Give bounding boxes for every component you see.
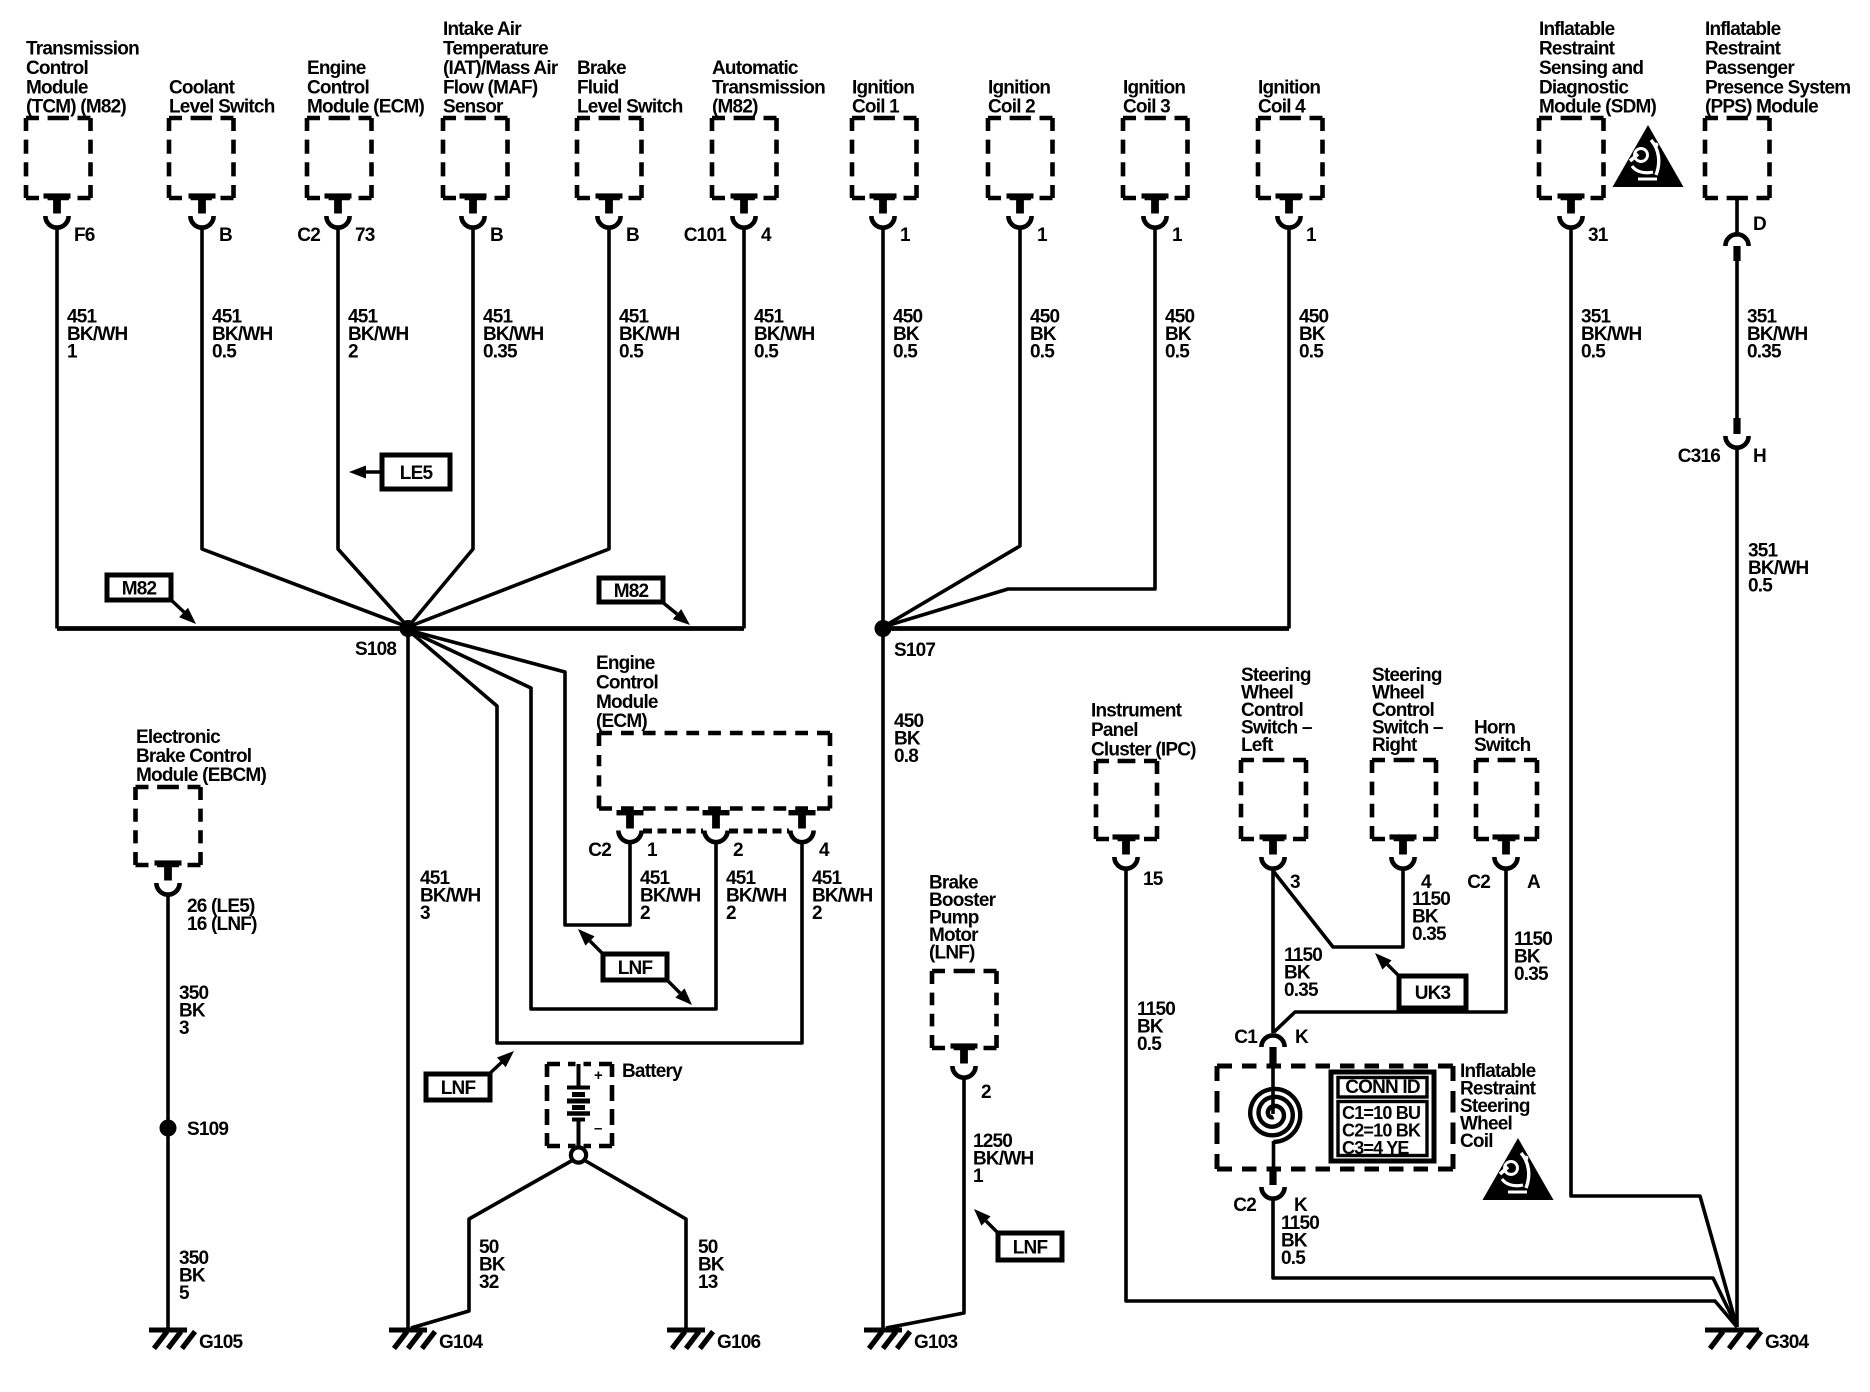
wire ignition coil 1 to S107 and down to G103 [881, 228, 885, 1329]
connector C2 pin K below coil [1233, 1169, 1308, 1216]
svg-text:C2: C2 [1233, 1195, 1256, 1216]
svg-text:1: 1 [647, 840, 658, 861]
component box battery [547, 1061, 683, 1147]
svg-text:0.35: 0.35 [1412, 924, 1447, 945]
svg-text:K: K [1295, 1027, 1309, 1048]
wire label 450 BK 0.5 at x883 [893, 307, 923, 363]
wire label 1150 BK 0.5 coil [1281, 1213, 1319, 1269]
wire label 450 BK 0.5 at x1020 [1030, 307, 1060, 363]
svg-text:LNF: LNF [1013, 1238, 1048, 1259]
ground G105 [149, 1328, 244, 1354]
svg-text:G106: G106 [717, 1332, 761, 1353]
wire IPC to G304 [1126, 869, 1737, 1327]
wire S108 horizontal bus [57, 626, 744, 631]
connector D cap and pin [1725, 214, 1766, 261]
component box ignition coil 3 [1123, 77, 1188, 246]
svg-text:G104: G104 [439, 1332, 484, 1353]
svg-text:(M82): (M82) [712, 97, 758, 118]
component box brake booster pump motor [929, 873, 997, 1104]
wire ECM pin73 to S108 [338, 228, 408, 627]
component box ignition coil 1 [852, 77, 917, 246]
svg-text:C2: C2 [297, 225, 320, 246]
component box brake fluid level switch [577, 58, 683, 246]
component box ECM lower [596, 653, 830, 809]
svg-text:Flow (MAF): Flow (MAF) [443, 77, 538, 98]
wire label 351 BK/WH 0.35 at x1737 [1747, 307, 1807, 363]
wire label 451 BK/WH 0.5 at x609 [619, 307, 679, 363]
svg-text:LE5: LE5 [400, 463, 434, 484]
svg-text:2: 2 [733, 840, 743, 861]
wire coil C2 to G304 [1273, 1198, 1737, 1327]
svg-text:31: 31 [1588, 225, 1609, 246]
svg-text:73: 73 [355, 225, 375, 246]
wire TCM F6 to S108 bus [55, 228, 59, 629]
wire D to C316 [1735, 259, 1739, 418]
svg-text:0.5: 0.5 [619, 342, 644, 363]
svg-text:M82: M82 [122, 579, 157, 600]
svg-text:Battery: Battery [622, 1061, 683, 1082]
svg-text:(IAT)/Mass Air: (IAT)/Mass Air [443, 58, 559, 79]
wire label 451 BK/WH 0.35 at x473 [483, 307, 543, 363]
svg-text:Passenger: Passenger [1705, 58, 1795, 79]
component box ECM [297, 58, 424, 246]
svg-text:0.35: 0.35 [1514, 964, 1549, 985]
svg-text:Presence System: Presence System [1705, 77, 1850, 98]
wire C316 to G304 [1735, 447, 1739, 1327]
flag LNF near ECM with two arrows [578, 929, 692, 1005]
wire S108 down to G104 [406, 629, 410, 1330]
svg-text:0.8: 0.8 [894, 746, 918, 767]
svg-text:0.35: 0.35 [483, 342, 518, 363]
component box instrument panel cluster [1091, 701, 1196, 891]
svg-text:3: 3 [1290, 872, 1300, 893]
svg-text:0.5: 0.5 [212, 342, 237, 363]
splice S108 [400, 620, 417, 637]
wire label 450 BK 0.5 at x1155 [1165, 307, 1195, 363]
svg-text:Module: Module [26, 77, 88, 98]
svg-text:3: 3 [179, 1018, 189, 1039]
svg-text:0.5: 0.5 [754, 342, 779, 363]
svg-text:Coil 1: Coil 1 [852, 97, 900, 118]
wire label 351 BK/WH 0.5 at x1571 [1581, 307, 1641, 363]
svg-text:13: 13 [698, 1272, 718, 1293]
component box ignition coil 2 [988, 77, 1053, 246]
flag M82 left with arrow [107, 575, 196, 624]
wire ignition coil 3 to S107 [883, 228, 1155, 627]
svg-text:5: 5 [179, 1283, 190, 1304]
svg-text:0.5: 0.5 [1581, 342, 1606, 363]
svg-text:B: B [626, 225, 639, 246]
svg-text:H: H [1753, 446, 1766, 467]
wire EBCM to G105 [166, 895, 170, 1329]
svg-text:4: 4 [819, 840, 830, 861]
svg-text:Transmission: Transmission [712, 77, 825, 98]
svg-text:Module (SDM): Module (SDM) [1539, 97, 1657, 118]
svg-text:Restraint: Restraint [1705, 39, 1782, 60]
wire label 1150 BK 0.5 IPC [1137, 999, 1175, 1055]
svg-text:0.35: 0.35 [1747, 342, 1782, 363]
svg-text:Ignition: Ignition [852, 77, 914, 98]
component box PPS module [1705, 19, 1850, 198]
svg-text:LNF: LNF [441, 1078, 476, 1099]
svg-text:Sensor: Sensor [443, 97, 504, 118]
svg-text:0.5: 0.5 [1299, 342, 1324, 363]
svg-text:Coil 2: Coil 2 [988, 97, 1035, 118]
svg-text:G105: G105 [199, 1332, 244, 1353]
wire IAT/MAF to S108 [408, 228, 473, 627]
flag LE5 with arrow [349, 455, 450, 489]
svg-text:Engine: Engine [307, 58, 366, 79]
wire brake fluid level switch to S108 [408, 228, 609, 627]
svg-text:3: 3 [420, 903, 430, 924]
svg-text:Control: Control [307, 77, 369, 98]
wire right switch to left switch pin [1274, 869, 1403, 947]
component box TCM M82 [26, 39, 139, 247]
wire coolant level switch to S108 [202, 228, 408, 627]
splice S109 [160, 1120, 177, 1137]
svg-text:B: B [219, 225, 232, 246]
svg-text:Coil 4: Coil 4 [1258, 97, 1306, 118]
svg-text:B: B [490, 225, 503, 246]
wire label 50 BK 13 [698, 1237, 725, 1293]
svg-text:C1: C1 [1234, 1027, 1258, 1048]
svg-text:Module: Module [596, 692, 658, 713]
splice S107 [875, 620, 892, 637]
ground G103 [864, 1328, 958, 1354]
svg-text:1: 1 [67, 342, 78, 363]
warning triangle steering coil [1483, 1138, 1554, 1200]
svg-text:Fluid: Fluid [577, 77, 619, 98]
svg-text:(PPS) Module: (PPS) Module [1705, 97, 1818, 118]
svg-text:Restraint: Restraint [1539, 39, 1616, 60]
svg-text:Control: Control [26, 58, 88, 79]
component box IAT/MAF sensor [443, 19, 559, 246]
svg-text:G103: G103 [914, 1332, 958, 1353]
svg-text:0.5: 0.5 [1137, 1034, 1162, 1055]
wire battery to G106 50 BK 13 [584, 1160, 686, 1328]
component box steering wheel control switch right [1372, 665, 1443, 893]
svg-text:32: 32 [479, 1272, 499, 1293]
svg-text:Instrument: Instrument [1091, 701, 1183, 722]
svg-text:C2: C2 [588, 840, 611, 861]
ground G304 [1705, 1328, 1810, 1354]
svg-text:Electronic: Electronic [136, 727, 221, 748]
flag UK3 with arrow [1375, 953, 1466, 1008]
svg-text:0.5: 0.5 [1748, 576, 1773, 597]
svg-text:Inflatable: Inflatable [1705, 19, 1781, 40]
svg-text:S108: S108 [355, 639, 396, 660]
svg-text:A: A [1527, 872, 1541, 893]
svg-text:0.5: 0.5 [1281, 1248, 1306, 1269]
svg-text:Module (EBCM): Module (EBCM) [136, 765, 266, 786]
svg-text:+: + [594, 1067, 603, 1084]
svg-text:Brake: Brake [577, 58, 626, 79]
wire SDM pin31 to G304 [1571, 228, 1737, 1327]
connector C316 [1678, 418, 1766, 467]
svg-text:Coil 3: Coil 3 [1123, 97, 1170, 118]
svg-text:Transmission: Transmission [26, 39, 139, 60]
ground G104 [389, 1328, 484, 1354]
svg-text:0.35: 0.35 [1284, 980, 1319, 1001]
svg-text:Left: Left [1241, 735, 1274, 756]
svg-text:Level Switch: Level Switch [577, 97, 683, 118]
svg-text:Cluster (IPC): Cluster (IPC) [1091, 739, 1196, 760]
wire horn switch to C1 [1274, 869, 1506, 1032]
wire S108 to ECM C2 pin 4 [408, 630, 802, 1043]
component box ignition coil 4 [1258, 77, 1323, 246]
svg-text:S109: S109 [187, 1119, 228, 1140]
wire label 450 BK 0.8 [894, 711, 924, 767]
component box automatic transmission M82 [684, 58, 825, 246]
wire automatic transmission pin4 drop [742, 228, 746, 629]
flag M82 right with arrow [599, 578, 690, 625]
svg-text:Panel: Panel [1091, 720, 1138, 741]
svg-text:M82: M82 [614, 581, 649, 602]
svg-text:(TCM) (M82): (TCM) (M82) [26, 97, 126, 118]
wire PPS pin D drop [1735, 198, 1739, 234]
warning triangle SDM [1613, 125, 1684, 187]
svg-text:Brake Control: Brake Control [136, 746, 251, 767]
wire label 351 BK/WH 0.5 below C316 [1748, 541, 1808, 597]
svg-text:–: – [594, 1120, 602, 1137]
svg-text:D: D [1753, 214, 1766, 235]
svg-text:F6: F6 [74, 225, 95, 246]
svg-text:2: 2 [348, 342, 358, 363]
wire battery to G104 50 BK 32 [411, 1160, 573, 1328]
svg-text:LNF: LNF [618, 958, 653, 979]
svg-text:Sensing and: Sensing and [1539, 58, 1643, 79]
svg-text:16 (LNF): 16 (LNF) [187, 914, 257, 935]
wire left switch down to C1 [1271, 869, 1275, 1033]
svg-text:0.5: 0.5 [893, 342, 918, 363]
wire label 1150 BK 0.35 left switch [1284, 945, 1322, 1001]
svg-text:2: 2 [640, 903, 650, 924]
svg-text:0.5: 0.5 [1030, 342, 1055, 363]
svg-text:Module (ECM): Module (ECM) [307, 97, 425, 118]
svg-text:Automatic: Automatic [712, 58, 799, 79]
svg-text:2: 2 [981, 1082, 991, 1103]
flag LNF near battery with arrow [426, 1051, 514, 1100]
svg-text:Ignition: Ignition [1258, 77, 1320, 98]
wire label 1150 BK 0.35 horn [1514, 929, 1552, 985]
wire label 350 BK 3 [179, 983, 209, 1039]
svg-text:1: 1 [1037, 225, 1048, 246]
CONN ID table [1331, 1072, 1434, 1161]
svg-text:15: 15 [1143, 869, 1164, 890]
svg-text:CONN ID: CONN ID [1345, 1077, 1420, 1098]
wire S108 to ECM C2 pin 1 [408, 630, 630, 925]
connector C1 pin K [1234, 1027, 1309, 1064]
wire ignition coil 2 to S107 [883, 228, 1020, 627]
svg-text:Temperature: Temperature [443, 39, 548, 60]
component box inflatable restraint steering wheel coil [1217, 1064, 1453, 1069]
wire label 451 BK/WH 0.5 at x202 [212, 307, 272, 363]
svg-text:Right: Right [1372, 735, 1418, 756]
svg-text:Level Switch: Level Switch [169, 97, 275, 118]
svg-text:G304: G304 [1765, 1332, 1810, 1353]
svg-text:2: 2 [812, 903, 822, 924]
svg-text:C101: C101 [684, 225, 727, 246]
svg-text:Ignition: Ignition [1123, 77, 1185, 98]
component box EBCM [136, 727, 267, 895]
label inflatable restraint steering wheel coil [1460, 1061, 1537, 1152]
svg-text:Control: Control [596, 672, 658, 693]
svg-text:C3=4 YE: C3=4 YE [1342, 1138, 1409, 1158]
svg-text:C316: C316 [1678, 446, 1720, 467]
svg-text:UK3: UK3 [1415, 983, 1451, 1004]
wire S108 to ECM C2 pin 2 [408, 630, 716, 1009]
wire ignition coil 4 drop [1287, 228, 1291, 629]
wire label 350 BK 5 [179, 1248, 209, 1304]
wire label 451 BK/WH 2 at pin x630 [640, 868, 700, 924]
svg-text:1: 1 [900, 225, 911, 246]
svg-text:1: 1 [1306, 225, 1317, 246]
wire S107 horizontal bus to coil 4 [883, 626, 1289, 631]
battery negative node [571, 1147, 586, 1162]
svg-text:Coil: Coil [1460, 1131, 1493, 1152]
wire label 1250 BK/WH 1 [973, 1131, 1033, 1187]
component box steering wheel control switch left [1241, 665, 1312, 893]
svg-text:Intake Air: Intake Air [443, 19, 522, 40]
svg-text:Inflatable: Inflatable [1539, 19, 1615, 40]
svg-text:S107: S107 [894, 640, 935, 661]
svg-text:0.5: 0.5 [1165, 342, 1190, 363]
ground G106 [667, 1328, 761, 1354]
wire brake booster to G103 [886, 1078, 964, 1328]
component box coolant level switch [169, 77, 275, 246]
svg-text:4: 4 [761, 225, 772, 246]
pin label 26 (LE5) / 16 (LNF) [187, 896, 257, 935]
pin labels C2 1 2 4 [588, 840, 830, 861]
component box horn switch [1467, 718, 1541, 894]
svg-text:1: 1 [973, 1166, 984, 1187]
wire label 451 BK/WH 2 at pin x802 [812, 868, 872, 924]
svg-text:Diagnostic: Diagnostic [1539, 77, 1629, 98]
wire label 451 BK/WH 1 at x57 [67, 307, 127, 363]
svg-text:Switch: Switch [1474, 735, 1531, 756]
svg-text:(LNF): (LNF) [929, 943, 975, 964]
svg-text:C2: C2 [1467, 872, 1490, 893]
wire label 451 BK/WH 2 at x338 [348, 307, 408, 363]
svg-text:(ECM): (ECM) [596, 711, 647, 732]
wire label 50 BK 32 [479, 1237, 506, 1293]
ECM C2 pins 1 2 4 [617, 810, 816, 842]
flag LNF near brake booster with arrow [974, 1209, 1062, 1260]
wire label 451 BK/WH 3 [420, 868, 480, 924]
svg-text:Engine: Engine [596, 653, 655, 674]
coil spiral [1250, 1089, 1300, 1142]
svg-text:Coolant: Coolant [169, 77, 236, 98]
wire label 450 BK 0.5 at x1289 [1299, 307, 1329, 363]
svg-text:2: 2 [726, 903, 736, 924]
component box SDM module [1539, 19, 1657, 246]
wire label 451 BK/WH 0.5 at x744 [754, 307, 814, 363]
svg-text:Ignition: Ignition [988, 77, 1050, 98]
wire label 1150 BK 0.35 right switch [1412, 889, 1450, 945]
wire label 451 BK/WH 2 at pin x716 [726, 868, 786, 924]
svg-text:1: 1 [1172, 225, 1183, 246]
